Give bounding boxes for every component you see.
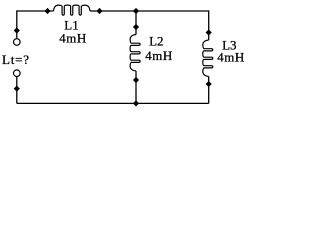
- pin L1 left: [44, 8, 50, 14]
- pin L2 top: [133, 24, 139, 30]
- svg-text:4mH: 4mH: [59, 31, 87, 46]
- node junction top rail / L2: [133, 8, 139, 14]
- inductor L1: [54, 5, 91, 15]
- pin L3 top: [206, 29, 212, 35]
- svg-text:4mH: 4mH: [217, 50, 245, 65]
- wire left vertical (bottom): [16, 76, 18, 103]
- pin L1 right: [96, 8, 102, 14]
- node terminal circle top: [13, 39, 20, 46]
- wire L3 branch top: [208, 10, 210, 40]
- svg-text:Lt=?: Lt=?: [2, 52, 30, 67]
- wire bottom rail: [17, 102, 209, 104]
- inductor L3: [203, 40, 213, 77]
- wire L2 branch top: [135, 11, 137, 35]
- wire L2 branch bottom: [135, 71, 137, 103]
- svg-text:L2: L2: [149, 34, 163, 49]
- node junction bottom rail / L2: [133, 100, 139, 106]
- inductor L2: [130, 35, 140, 72]
- pin L2 bottom: [133, 77, 139, 83]
- pin port bottom: [14, 86, 20, 92]
- wire top rail left segment: [17, 10, 54, 12]
- pin L3 bottom: [206, 81, 212, 87]
- svg-text:4mH: 4mH: [145, 48, 173, 63]
- wire left vertical (top): [16, 10, 18, 38]
- wire L3 branch bottom: [208, 77, 210, 104]
- node terminal circle bottom: [13, 70, 20, 77]
- pin port top: [14, 27, 20, 33]
- wire top rail right segment: [90, 10, 209, 12]
